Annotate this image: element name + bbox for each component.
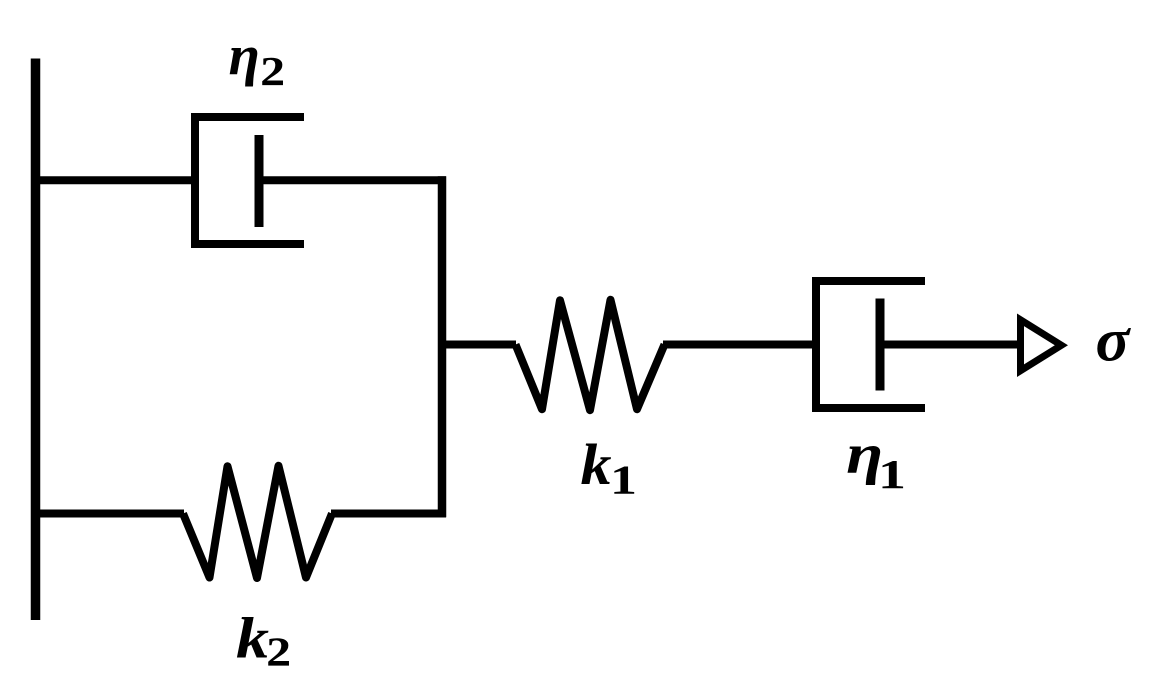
wire: wall to dashpot eta2 bbox=[32, 176, 199, 184]
wire: spring k2 to right vertical bbox=[331, 510, 446, 518]
svg-text:2: 2 bbox=[266, 629, 291, 675]
svg-text:k: k bbox=[236, 606, 269, 671]
fixed wall bbox=[31, 59, 41, 621]
dashpot eta1 piston bbox=[876, 299, 885, 391]
svg-text:2: 2 bbox=[260, 48, 285, 94]
dashpot U eta2 cylinder bbox=[195, 117, 304, 244]
svg-text:η: η bbox=[229, 25, 260, 88]
wire: right vertical of parallel block bbox=[438, 176, 447, 517]
wire: spring k1 to dashpot eta1 bbox=[663, 341, 819, 349]
wire: wall to spring k2 bbox=[32, 510, 184, 518]
svg-text:1: 1 bbox=[878, 451, 906, 497]
wire: right vertical to spring k1 bbox=[438, 341, 516, 349]
wire: eta2 piston to right vertical bbox=[259, 176, 446, 184]
dashpot eta2 piston bbox=[255, 135, 264, 227]
svg-text:σ: σ bbox=[1096, 308, 1132, 375]
spring k1 bbox=[516, 300, 665, 410]
arrowhead of stress sigma bbox=[1017, 314, 1068, 378]
svg-text:k: k bbox=[581, 432, 612, 497]
wire: eta1 piston to arrow bbox=[880, 341, 1020, 349]
spring k2 bbox=[183, 466, 332, 578]
dashpot eta1 cylinder bbox=[816, 281, 925, 408]
svg-text:1: 1 bbox=[610, 457, 637, 503]
